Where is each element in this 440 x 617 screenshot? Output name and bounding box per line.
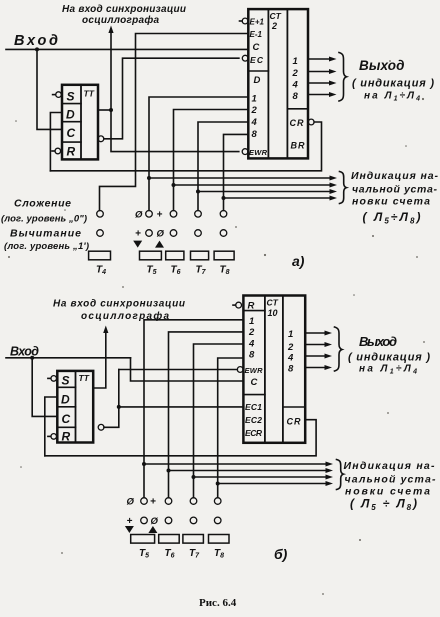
wire: CR output loop to D and E-1 net (a): [50, 122, 321, 171]
svg-text:CR: CR: [287, 417, 302, 427]
svg-text:( индикация ): ( индикация ): [348, 352, 430, 364]
pin EWR bubble (a): [242, 149, 248, 155]
switch body T5 (a): [140, 251, 162, 260]
svg-text:C: C: [67, 126, 76, 140]
node: T7 indication tap (b): [192, 475, 196, 479]
counter U4 (b) CR section divider: [283, 406, 305, 408]
wire: T5 riser to counter input 1 (b): [144, 320, 243, 498]
node: junction Вход/FF-C (b): [30, 356, 34, 360]
svg-text:На вход синхронизации: На вход синхронизации: [53, 299, 185, 310]
svg-text:б): б): [274, 546, 288, 562]
svg-text:ECR: ECR: [245, 428, 263, 438]
node: T6 indication tap (a): [172, 183, 176, 187]
flip-flop U1 (a) pin column divider: [80, 85, 82, 160]
svg-text:R: R: [248, 301, 255, 312]
counter U4 (b) left column divider: [264, 296, 266, 443]
wire: Вход bus (b): [6, 357, 131, 359]
wire: indication line 1 (b): [144, 463, 326, 465]
flip-flop Q-inverse bubble (a): [98, 136, 104, 142]
svg-text:Ø: Ø: [127, 497, 135, 508]
node: T6 indication tap (b): [167, 469, 171, 473]
node: Q junction (a): [109, 108, 113, 112]
svg-text:новки счета: новки счета: [352, 196, 430, 208]
svg-text:на Л1÷Л4: на Л1÷Л4: [359, 364, 417, 376]
svg-text:T4: T4: [96, 265, 106, 277]
svg-text:+: +: [150, 497, 156, 508]
wire: T8 riser to counter input 8 (b): [218, 358, 244, 498]
svg-text:S: S: [67, 90, 75, 104]
svg-text:+: +: [157, 210, 163, 221]
svg-text:R: R: [67, 145, 76, 159]
wire: node to EWR input (b): [119, 369, 238, 371]
terminal T4 lower contact circle (a): [97, 230, 104, 237]
svg-text:T7: T7: [189, 548, 200, 560]
svg-text:T8: T8: [220, 265, 230, 277]
svg-text:E+1: E+1: [250, 18, 265, 27]
wire: indication line 3 (a): [198, 191, 330, 193]
switch body T6 (a): [166, 251, 184, 260]
svg-text:+: +: [135, 229, 141, 240]
terminal T6 upper contact circle (a): [170, 211, 177, 218]
wire: T8 riser to counter input 8 (a): [224, 134, 249, 210]
svg-text:T5: T5: [147, 265, 157, 277]
node: junction Вход/FF-C (a): [35, 47, 39, 51]
terminal T6 upper contact circle (b): [165, 498, 172, 505]
counter U4 (b) right column divider: [282, 296, 284, 443]
svg-text:T8: T8: [214, 548, 224, 560]
svg-text:Вход: Вход: [10, 345, 39, 359]
svg-text:а): а): [292, 253, 305, 269]
wire: T6 riser to counter input 2 (a): [174, 110, 249, 211]
counter U4 (b) CT10 body: [243, 296, 305, 443]
svg-text:+: +: [127, 516, 133, 527]
pin EWR bubble (b): [237, 367, 243, 373]
terminal T8 upper contact circle (a): [220, 211, 227, 218]
wire: arrowhead indication 1 (b): [326, 462, 334, 467]
flip-flop U3 (b) D/C cell divider: [57, 406, 75, 408]
brace: output group (a): [339, 53, 347, 102]
pin E+1 stub and bubble (a): [240, 20, 243, 22]
flip-flop U3 (b) TT body: [57, 371, 93, 443]
svg-text:4: 4: [287, 353, 294, 364]
terminal row2 contact circles (a): [146, 230, 153, 237]
wire: node to EC1 input (b): [119, 406, 244, 408]
svg-text:C: C: [251, 377, 258, 388]
wire: indication line 3 (b): [194, 476, 327, 478]
pin S bubble (a) with stub: [53, 94, 56, 96]
svg-text:8: 8: [288, 364, 294, 375]
wire: counter output 8 arrow (b): [305, 367, 325, 369]
node: T8 indication tap (b): [216, 482, 220, 486]
counter U2 (a) right column divider: [286, 9, 288, 158]
switch position triangle down (b): [125, 526, 134, 533]
wire: indication line 2 (a): [174, 184, 331, 186]
brace: indication group (b): [337, 460, 344, 490]
flip-flop U1 (a) D/C cell divider: [62, 121, 81, 123]
counter U2 (a) CT2 body: [248, 9, 308, 158]
wire: T7 riser to counter input 4 (a): [198, 122, 248, 211]
wire: E-1 input (a) from T4 switch riser: [100, 34, 249, 211]
pin R bubble (a) with stub: [52, 150, 55, 152]
wire: counter output 4 arrow (a): [308, 82, 330, 84]
wire: arrowhead sync (a): [108, 26, 113, 34]
terminal row2 contact circles (b): [141, 517, 148, 524]
node: T5 indication tap (a): [147, 176, 151, 180]
svg-text:Вычитание: Вычитание: [10, 228, 81, 240]
wire: arrowhead sync (b): [103, 326, 108, 334]
svg-text:EC2: EC2: [245, 415, 262, 425]
svg-text:D: D: [254, 75, 261, 86]
wire: arrowhead indication 3 (b): [326, 475, 334, 480]
svg-text:чальной уста-: чальной уста-: [352, 184, 438, 196]
wire: T6 riser to counter input 2 (b): [169, 332, 244, 498]
flip-flop U1 (a) C/R cell divider: [62, 141, 81, 143]
svg-text:осциллографа: осциллографа: [82, 14, 159, 26]
wire: CR output loop to D net (b): [45, 420, 316, 456]
flip-flop U1 (a) S/D cell divider: [62, 103, 81, 105]
wire: counter output 8 arrow (a): [308, 94, 330, 96]
svg-text:( Л5 ÷ Л8): ( Л5 ÷ Л8): [350, 497, 417, 513]
svg-text:C: C: [62, 412, 71, 426]
svg-text:4: 4: [292, 80, 299, 91]
svg-text:4: 4: [251, 117, 258, 128]
svg-text:D: D: [66, 108, 75, 122]
wire: junction down to FF C input (a): [37, 49, 62, 129]
wire: T5 riser to counter input 1 (a): [149, 97, 248, 211]
svg-text:8: 8: [252, 129, 258, 140]
svg-text:2: 2: [248, 327, 255, 338]
svg-text:10: 10: [268, 308, 278, 318]
svg-text:EWR: EWR: [249, 148, 268, 157]
wire: indication line 4 (b): [218, 483, 326, 485]
node: T7 indication tap (a): [196, 190, 200, 194]
svg-text:2: 2: [251, 105, 258, 116]
svg-text:8: 8: [249, 350, 255, 361]
svg-text:8: 8: [293, 91, 299, 102]
wire: arrowhead indication 4 (b): [326, 481, 334, 486]
counter U2 (a) left column divider: [267, 9, 269, 158]
wire: arrowhead indication 2 (a): [330, 183, 338, 188]
svg-text:T7: T7: [196, 265, 207, 277]
wire: indication line 2 (b): [169, 470, 327, 472]
svg-text:( Л5÷Л8): ( Л5÷Л8): [363, 210, 421, 226]
switch body T5 (b): [131, 535, 155, 544]
svg-text:TT: TT: [84, 89, 95, 99]
wire: Вход bus (a) to counter C input: [6, 48, 248, 50]
wire: counter output 2 arrow (a): [308, 71, 330, 73]
terminal T7 upper contact circle (b): [190, 498, 197, 505]
svg-text:D: D: [61, 393, 70, 407]
svg-text:(лог. уровень „0"): (лог. уровень „0"): [1, 214, 87, 225]
svg-text:EC1: EC1: [245, 402, 262, 412]
node: T8 indication tap (a): [222, 196, 226, 200]
wire: sync output vertical (a) from Q node up to arrow: [110, 31, 112, 110]
switch body T4 (a): [89, 251, 111, 260]
svg-text:1: 1: [288, 329, 293, 340]
svg-text:Индикация на-: Индикация на-: [344, 460, 436, 472]
svg-text:4: 4: [248, 339, 255, 350]
wire: FF D input loop (b) from CR line: [45, 397, 58, 456]
svg-text:осциллографа: осциллографа: [81, 310, 169, 322]
svg-text:Ø: Ø: [151, 516, 159, 527]
svg-text:C: C: [253, 42, 260, 53]
svg-text:2: 2: [287, 342, 294, 353]
wire: arrowhead indication 4 (a): [330, 196, 338, 201]
brace: output group (b): [335, 327, 343, 371]
svg-text:T6: T6: [171, 265, 181, 277]
svg-text:CR: CR: [290, 118, 305, 128]
node: EC1/EWR junction (b): [117, 405, 121, 409]
wire: Q down to EWR line (a): [111, 110, 239, 152]
svg-text:R: R: [62, 430, 71, 444]
switch position triangle down (a): [133, 241, 142, 248]
terminal T5 upper contact circle (a): [146, 211, 153, 218]
svg-text:Ø: Ø: [135, 210, 143, 221]
wire: FF Q output (a) to junction: [98, 109, 111, 111]
svg-text:T6: T6: [165, 548, 175, 560]
switch body T8 (a): [214, 251, 234, 260]
switch body T7 (b): [183, 535, 204, 544]
wire: junction down to FF C input (b): [32, 358, 57, 417]
svg-text:Сложение: Сложение: [14, 198, 71, 210]
svg-text:Рис. 6.4: Рис. 6.4: [199, 597, 237, 609]
svg-text:1: 1: [249, 316, 254, 327]
flip-flop U3 (b) pin column divider: [75, 371, 77, 443]
wire: indication line 4 (a): [224, 197, 331, 199]
svg-text:T5: T5: [139, 548, 149, 560]
svg-text:BR: BR: [291, 141, 306, 151]
svg-text:Ø: Ø: [157, 229, 165, 240]
switch body T8 (b): [209, 535, 230, 544]
pin EC bubble (a): [242, 55, 248, 61]
svg-text:( индикация ): ( индикация ): [352, 78, 434, 90]
svg-text:На вход синхронизации: На вход синхронизации: [62, 4, 186, 15]
wire: counter output 4 arrow (b): [305, 355, 325, 357]
wire: Вход to counter C input (b): [131, 358, 244, 381]
terminal T5 upper contact circle (b): [141, 498, 148, 505]
switch position triangle up (a): [155, 241, 164, 248]
wire: arrowhead indication 2 (b): [326, 468, 334, 473]
pin S bubble (b) with stub: [48, 377, 51, 379]
counter U4 (b) EC section divider: [243, 394, 265, 396]
flip-flop U1 (a) TT body: [62, 85, 98, 160]
terminal T7 upper contact circle (a): [195, 211, 202, 218]
svg-text:Выход: Выход: [359, 334, 398, 349]
node: T5 indication tap (b): [142, 462, 146, 466]
switch body T7 (a): [191, 251, 209, 260]
counter U2 (a) CR/BR section divider: [287, 108, 308, 110]
wire: arrowhead indication 1 (a): [330, 176, 338, 181]
svg-text:Индикация на-: Индикация на-: [351, 170, 439, 182]
wire: counter output 1 arrow (b): [305, 332, 325, 334]
counter CR output bubble (a): [308, 119, 314, 125]
wire: FF D input loop (a) from CR line: [50, 113, 62, 171]
wire: T7 riser to counter input 4 (b): [194, 344, 244, 498]
svg-text:CT: CT: [270, 11, 282, 21]
terminal T4 upper contact circle (a): [97, 211, 104, 218]
counter U2 (a) left section divider: [248, 70, 268, 72]
flip-flop U3 (b) S/D cell divider: [57, 386, 75, 388]
svg-text:E-1: E-1: [250, 30, 263, 39]
wire: Q-inverse up to EC1/EWR node (b): [104, 370, 119, 428]
wire: arrowhead indication 3 (a): [330, 189, 338, 194]
svg-text:1: 1: [252, 94, 257, 105]
wire: sync vertical (b) from Q corner up to arrow: [93, 331, 106, 388]
svg-text:S: S: [62, 374, 70, 388]
svg-text:TT: TT: [79, 373, 90, 383]
svg-text:EWR: EWR: [245, 366, 264, 375]
svg-text:на Л1÷Л4: на Л1÷Л4: [364, 91, 420, 103]
svg-text:CT: CT: [267, 298, 279, 308]
svg-text:2: 2: [271, 21, 277, 31]
brace: indication group (a): [340, 172, 347, 204]
wire: Q-inverse to EC input (a): [104, 58, 239, 139]
pin R bubble (b) with stub: [48, 435, 51, 437]
wire: indication line 1 (a): [149, 177, 330, 179]
svg-text:EC: EC: [250, 55, 264, 65]
terminal T8 upper contact circle (b): [214, 498, 221, 505]
switch position triangle up (b): [148, 526, 157, 533]
wire: counter output 1 arrow (a): [308, 58, 330, 60]
counter U4 (b) R cell divider: [243, 310, 265, 312]
svg-text:Вход: Вход: [14, 33, 59, 49]
svg-text:Выход: Выход: [359, 58, 406, 73]
flip-flop Q-inverse bubble (b): [98, 424, 104, 430]
wire: counter output 2 arrow (b): [305, 344, 325, 346]
svg-text:1: 1: [293, 56, 298, 67]
svg-text:чальной уста-: чальной уста-: [345, 474, 437, 486]
svg-text:(лог. уровень „1'): (лог. уровень „1'): [4, 241, 89, 252]
pin R stub and bubble (b): [233, 304, 236, 306]
switch body T6 (b): [159, 535, 180, 544]
flip-flop U3 (b) C/R cell divider: [57, 426, 75, 428]
svg-text:2: 2: [292, 68, 299, 79]
